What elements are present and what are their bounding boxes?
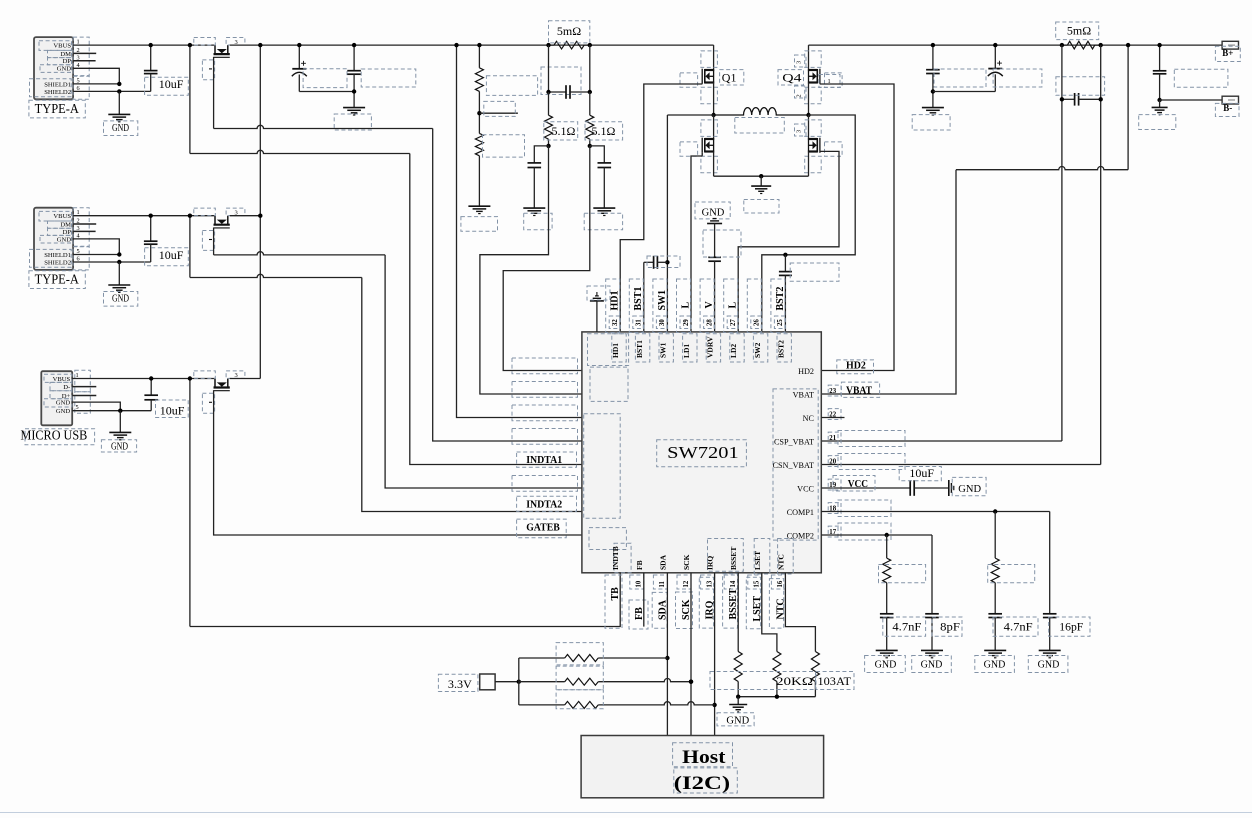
svg-text:SW2: SW2 — [753, 342, 762, 358]
svg-text:GND: GND — [112, 293, 129, 304]
ground C18 — [1039, 649, 1061, 651]
svg-text:5mΩ: 5mΩ — [557, 24, 581, 38]
wire Q3 gate to LD2 — [738, 151, 839, 332]
svg-text:31: 31 — [636, 319, 643, 326]
junction R3 bottom — [588, 144, 592, 148]
wire BSSET pin 14 down — [737, 573, 739, 652]
svg-text:SHIELD2: SHIELD2 — [44, 259, 71, 266]
wire VCC pin 19 — [821, 487, 910, 489]
wire J1 VBUS to rail — [73, 44, 215, 46]
wire divider middle + tap stub — [478, 91, 480, 133]
wire Q3 source down — [808, 152, 810, 177]
svg-text:5.1Ω: 5.1Ω — [552, 124, 576, 138]
svg-text:10uF: 10uF — [909, 466, 934, 480]
svg-text:NTC: NTC — [776, 554, 785, 570]
capacitor C18 16pF COMP1 — [1049, 512, 1051, 614]
wire J2 SHIELD2 to cap ground — [73, 261, 151, 263]
resistor R3 5.1ohm right — [589, 92, 591, 115]
wire J1 SHIELD1 — [73, 83, 119, 85]
svg-text:BST1: BST1 — [635, 340, 644, 358]
svg-text:20KΩ: 20KΩ — [776, 674, 813, 688]
junction C12 gnd node — [931, 89, 935, 93]
wire FB stub pin 10 — [643, 573, 645, 627]
svg-text:VBAT: VBAT — [846, 386, 872, 397]
svg-text:VBUS: VBUS — [53, 376, 71, 383]
svg-text:10uF: 10uF — [159, 77, 184, 91]
svg-text:4.7nF: 4.7nF — [892, 620, 921, 634]
junction trunk at rail — [258, 43, 262, 47]
svg-text:GND: GND — [726, 715, 749, 726]
junction trunk at Q6 out — [258, 214, 262, 218]
svg-text:4.7nF: 4.7nF — [1004, 620, 1033, 634]
svg-text:28: 28 — [706, 319, 713, 326]
wire rail after Q5 (VBUS bus) — [230, 44, 714, 46]
svg-text:11: 11 — [659, 580, 666, 587]
wire Q6 output to trunk — [230, 215, 260, 217]
svg-text:SCK: SCK — [682, 554, 691, 570]
capacitor C12 ceramic (batt) — [932, 45, 934, 70]
svg-text:GND: GND — [111, 441, 128, 452]
wire CSP kelvin down — [1061, 45, 1063, 441]
wire INDTA1 net: J1 VBUS down — [189, 45, 191, 153]
wire LD1 to Q2 gate — [691, 156, 702, 332]
svg-text:30: 30 — [659, 319, 666, 326]
svg-text:SW1: SW1 — [658, 342, 667, 358]
svg-text:NC: NC — [803, 414, 815, 423]
wire SCK pin 12 to host — [690, 573, 692, 736]
wire Q1 source to SW1 node — [713, 83, 715, 116]
svg-text:D-: D- — [63, 384, 70, 391]
wire CSN kelvin down — [1100, 45, 1102, 464]
ground C17 — [984, 649, 1006, 651]
ground C19 — [876, 649, 898, 651]
wire J2 DP stub — [73, 230, 96, 232]
J3 pin name boxes — [44, 374, 72, 382]
svg-text:TYPE-A: TYPE-A — [35, 102, 80, 117]
wire COMP2 pin 17 — [821, 534, 932, 536]
wire COMP1 pin 18 — [821, 511, 1049, 513]
svg-text:14: 14 — [730, 580, 737, 587]
svg-text:Host: Host — [682, 747, 726, 768]
capacitor C13 electrolytic (batt) — [994, 45, 996, 69]
svg-text:Q4: Q4 — [782, 71, 801, 85]
transistor Q2 low-side left — [713, 115, 715, 139]
wire trunk switched VBUS — [259, 45, 261, 378]
svg-text:FB: FB — [635, 560, 644, 570]
connector J3 MICRO USB — [41, 371, 72, 425]
connector J1 TYPE-A (top) — [34, 37, 73, 99]
svg-text:HD2: HD2 — [798, 367, 814, 376]
svg-text:SW1: SW1 — [657, 290, 668, 311]
ground VCC (sideways) — [948, 480, 950, 496]
wire J1 DM stub — [73, 52, 96, 54]
wire Q1 gate to HD1 — [620, 84, 702, 332]
svg-text:10uF: 10uF — [160, 403, 185, 417]
svg-text:3.3V: 3.3V — [448, 677, 472, 691]
resistor R1 5mOhm (USB current sense) — [554, 41, 584, 49]
ground C8 — [593, 207, 615, 209]
svg-text:CSP_VBAT: CSP_VBAT — [774, 437, 814, 446]
wire Q4 source to SW2 node — [808, 83, 810, 116]
transistor Q5 load switch (J1) — [214, 45, 216, 54]
svg-text:(I2C): (I2C) — [674, 773, 730, 794]
svg-text:SHIELD1: SHIELD1 — [44, 81, 71, 88]
wire sense right down — [589, 45, 591, 92]
wire power stage source rail — [714, 175, 809, 177]
junction C15 bottom / B- node — [1157, 98, 1161, 102]
svg-text:L: L — [680, 302, 691, 309]
svg-text:15: 15 — [754, 580, 761, 587]
wire CSN_VBAT to pin 20 — [821, 464, 1100, 466]
wire ACIN net rail to pin 3 — [457, 45, 582, 417]
junction BST1 cap tap — [665, 260, 669, 264]
junction J1 shield2 — [117, 89, 121, 93]
wire Q2 source down — [713, 152, 715, 177]
svg-text:GATEB: GATEB — [526, 523, 560, 534]
junction VBAT at rail — [1126, 43, 1130, 47]
wire J1 SHIELD2 to cap ground — [73, 90, 151, 92]
resistor R2 5.1ohm left — [548, 92, 550, 115]
svg-text:13: 13 — [706, 580, 713, 587]
svg-text:GND: GND — [921, 659, 943, 670]
svg-text:GND: GND — [1038, 659, 1060, 670]
block Host (I2C) — [581, 736, 824, 798]
svg-text:VCC: VCC — [848, 479, 868, 490]
svg-text:HD1: HD1 — [610, 291, 621, 311]
capacitor C4 electrolytic (rail) — [298, 45, 300, 69]
junction R1 left — [546, 43, 550, 47]
capacitor C15 (B+ terminal) — [1159, 45, 1161, 71]
resistor R9 IRQ pullup (hops SDA) — [519, 704, 565, 706]
wire INDTA2 to pin 7 — [362, 278, 582, 512]
svg-text:SDA: SDA — [658, 554, 667, 570]
junction C6 left — [546, 90, 550, 94]
svg-text:21: 21 — [829, 435, 836, 442]
svg-text:GND: GND — [112, 123, 129, 134]
wire GATEA1 horizontal (hop over trunk) — [214, 125, 433, 128]
capacitor C6 sense filter — [549, 91, 567, 93]
svg-text:5.1Ω: 5.1Ω — [592, 124, 616, 138]
svg-text:LD1: LD1 — [682, 344, 691, 358]
resistor R8 SCK pullup — [519, 681, 565, 683]
resistor R4 5mOhm (battery current sense) — [1067, 41, 1094, 49]
svg-text:BST2: BST2 — [776, 340, 785, 358]
pullup resistor boxes — [556, 643, 603, 665]
J1 pin name boxes — [39, 41, 72, 51]
svg-text:COMP2: COMP2 — [787, 531, 814, 540]
wire sense-right to pin 1 — [503, 146, 590, 371]
svg-text:LD2: LD2 — [729, 344, 738, 358]
wire INDTB bottom run — [190, 573, 620, 627]
svg-text:10: 10 — [636, 580, 643, 587]
wire rail Q4 to B+ — [809, 44, 1223, 46]
junction C6 right — [588, 90, 592, 94]
junction J1 shield1 — [117, 82, 121, 86]
right side row boxes — [838, 431, 905, 447]
svg-text:VCC: VCC — [797, 484, 814, 493]
svg-text:DM: DM — [60, 51, 71, 58]
ground set resistors — [737, 697, 739, 705]
svg-text:CSN_VBAT: CSN_VBAT — [773, 461, 814, 470]
svg-text:INDTB: INDTB — [611, 546, 620, 570]
capacitor C17 4.7nF COMP1 — [988, 613, 1002, 615]
svg-text:20: 20 — [829, 458, 836, 465]
junction COMP1 RC — [993, 509, 997, 513]
terminal B- — [1222, 96, 1238, 104]
transistor Q1 high-side left — [705, 69, 714, 71]
wire rail out of Q4 drain — [808, 45, 810, 70]
junction source rail center — [759, 174, 763, 178]
junction C2 top — [149, 214, 153, 218]
wire VBUS-J3 down (INDTB net) — [189, 379, 191, 627]
svg-text:SW7201: SW7201 — [667, 443, 739, 462]
svg-text:2: 2 — [796, 94, 803, 97]
wire SW2 net to pin 26 — [762, 115, 855, 332]
svg-text:TYPE-A: TYPE-A — [35, 273, 80, 288]
ground J3 GND symbol — [109, 431, 131, 433]
wire J1 DP stub — [73, 60, 96, 62]
svg-text:GND: GND — [958, 484, 981, 495]
IC inner dashed boxes — [588, 334, 629, 366]
junction BST2 cap tap — [783, 253, 787, 257]
svg-text:27: 27 — [730, 319, 737, 326]
wire J3 GND5 to cap bottom — [72, 410, 151, 412]
J2 pin name boxes — [39, 211, 72, 221]
wire J2 GND pin to ground node — [73, 239, 119, 255]
svg-text:B-: B- — [1223, 103, 1232, 113]
resistor R10 BSSET — [734, 652, 742, 682]
capacitor C10 BST1 bootstrap — [644, 261, 654, 263]
capacitor C3 10uF (J3 VBUS) — [150, 379, 152, 396]
svg-text:10uF: 10uF — [159, 248, 184, 262]
wire J3 gnd drop — [119, 411, 121, 432]
wire VBUS-J2 down to INDTA2 — [189, 216, 191, 278]
capacitor C9 BST2 bootstrap — [784, 255, 786, 272]
ground IC exposed pad (top-left, inverted) — [590, 300, 604, 302]
junction SW1 node — [711, 113, 715, 117]
wire LSET pin 15 down — [762, 573, 777, 652]
svg-text:BST1: BST1 — [633, 287, 644, 311]
svg-text:25: 25 — [777, 319, 784, 326]
svg-text:TB: TB — [610, 587, 621, 601]
svg-text:DP: DP — [63, 58, 72, 65]
capacitor C2 10uF (J2 VBUS) — [150, 216, 152, 242]
wire J3 D- stub — [72, 386, 96, 388]
wire J1 gnd drop — [118, 91, 120, 114]
svg-text:LSET: LSET — [753, 551, 762, 570]
wire J2 VBUS to PMOS Q6 — [73, 215, 215, 217]
wire GATEA1 net: Q5 gate down — [213, 57, 215, 129]
svg-text:VBUS: VBUS — [53, 43, 71, 50]
wire INDTA2 horizontal (hop over trunk) — [190, 274, 362, 277]
svg-text:GND: GND — [702, 207, 725, 218]
svg-text:103AT: 103AT — [818, 674, 852, 688]
svg-text:BSSET: BSSET — [729, 547, 738, 570]
svg-text:Q1: Q1 — [722, 71, 737, 85]
svg-text:IRQ: IRQ — [706, 556, 715, 570]
wire GATEA2 horizontal (hop over trunk) — [214, 252, 386, 255]
wire SW1 net to pin 30 — [667, 114, 713, 116]
capacitor C20 8pF COMP2 — [931, 535, 933, 614]
svg-text:29: 29 — [683, 319, 690, 326]
junction at J3 rail — [188, 376, 192, 380]
wire SDA pin 11 to host — [666, 573, 668, 736]
capacitor C8 right sense to gnd — [590, 146, 605, 163]
capacitor C5 ceramic (rail) — [353, 45, 355, 71]
ground J2 GND symbol — [108, 284, 130, 286]
wire J1 GND pin to ground node — [73, 68, 119, 84]
svg-text:DP: DP — [63, 229, 72, 236]
wire CSP_VBAT to pin 21 — [821, 440, 1062, 442]
wire J2 gnd drop — [118, 262, 120, 285]
svg-text:COMP1: COMP1 — [787, 508, 814, 517]
svg-text:DM: DM — [60, 221, 71, 228]
svg-text:V: V — [704, 301, 715, 309]
wire INDTA1 to pin 5 — [410, 154, 582, 465]
wire IRQ pin 13 to host — [714, 573, 716, 736]
svg-text:26: 26 — [754, 319, 761, 326]
junction J2 shield2 — [117, 260, 121, 264]
svg-text:12: 12 — [683, 580, 690, 587]
wire sense-left to pin 2 — [480, 146, 582, 394]
label boxes below IC — [605, 575, 622, 628]
capacitor C19 4.7nF COMP2 — [880, 613, 894, 615]
svg-text:GND: GND — [984, 659, 1006, 670]
resistor R6 COMP2 — [886, 535, 888, 558]
wire HD2 to Q4 gate — [820, 84, 894, 371]
junction R2 bottom — [546, 144, 550, 148]
junction COMP2 RC — [885, 533, 889, 537]
IC U1 SW7201 — [582, 332, 821, 573]
junction at J2 rail — [188, 214, 192, 218]
junction J3 gnd — [118, 409, 122, 413]
svg-text:SHIELD2: SHIELD2 — [44, 89, 71, 96]
junction SCK pullup — [689, 680, 693, 684]
transistor Q7 load switch (J3) — [214, 379, 216, 388]
junction J2 shield1 — [117, 252, 121, 256]
resistor R7 SDA pullup — [519, 657, 565, 659]
transistor Q4 high-side right — [808, 69, 817, 71]
svg-text:MICRO USB: MICRO USB — [21, 428, 88, 443]
wire VBAT net pin 23 — [821, 170, 956, 394]
svg-text:SHIELD1: SHIELD1 — [44, 252, 71, 259]
svg-text:16pF: 16pF — [1059, 620, 1083, 634]
svg-text:32: 32 — [612, 319, 619, 326]
junction C4/C5 gnd — [352, 89, 356, 93]
wire GATEA1 to pin 4 — [433, 129, 582, 442]
svg-text:5mΩ: 5mΩ — [1067, 24, 1091, 38]
wire J3 GND4 to ground node — [72, 402, 120, 411]
svg-text:VDRV: VDRV — [706, 336, 715, 358]
junction IRQ pullup — [712, 703, 716, 707]
empty label boxes left of IC pins — [512, 358, 578, 374]
resistor divider upper — [478, 45, 480, 68]
ground J1 GND symbol — [108, 113, 130, 115]
svg-text:BST2: BST2 — [775, 287, 786, 311]
capacitor C11 VDRV decoupling — [714, 224, 716, 258]
svg-text:B+: B+ — [1222, 48, 1233, 58]
svg-text:INDTA1: INDTA1 — [526, 455, 562, 466]
wire GATEA2 to pin 6 — [385, 255, 582, 488]
wire NTC pin 16 down — [785, 573, 815, 652]
terminal B+ — [1222, 44, 1238, 46]
junction INDTA1 at rail — [188, 43, 192, 47]
svg-text:GND: GND — [56, 408, 71, 415]
junction ACIN at rail — [454, 43, 458, 47]
wire B- terminal — [1160, 99, 1223, 101]
ground power stage — [760, 176, 762, 186]
junction divider at rail — [477, 43, 481, 47]
wire 3.3V to pullups — [495, 681, 519, 683]
resistor R12 NTC 103AT — [811, 652, 819, 682]
wire set resistor common — [737, 696, 815, 698]
transistor Q6 load switch (J2) — [214, 216, 216, 225]
junction C3 top — [149, 376, 153, 380]
ground C20 — [921, 649, 943, 651]
ground C4/C5 — [343, 107, 365, 109]
ground C12/C13 — [922, 107, 944, 109]
transistor Q3 low-side right — [808, 115, 810, 139]
svg-text:GND: GND — [875, 659, 897, 670]
wire sense left down — [548, 45, 550, 92]
svg-text:3: 3 — [796, 130, 803, 133]
resistor R5 COMP1 — [994, 512, 996, 559]
svg-text:16: 16 — [777, 580, 784, 587]
svg-text:INDTA2: INDTA2 — [526, 500, 562, 511]
wire rail into Q1 drain — [713, 45, 715, 70]
wire J3 VBUS to PMOS Q7 — [72, 378, 215, 380]
svg-text:HD1: HD1 — [611, 343, 620, 358]
ground C15 — [1159, 100, 1161, 107]
wire J2 SHIELD1 — [73, 254, 119, 256]
junction SDA pullup — [665, 656, 669, 660]
wire INDTA1 horizontal (hop over trunk) — [190, 150, 410, 153]
ground C7 — [523, 207, 545, 209]
wire GATEB net: Q7 gate down to pin 8 — [214, 390, 582, 535]
wire J2 DM stub — [73, 223, 96, 225]
svg-text:VBAT: VBAT — [793, 390, 814, 399]
decor bottom rule — [0, 812, 1252, 814]
capacitor C14 sense filter (batt) — [1062, 98, 1075, 100]
ground divider — [468, 205, 490, 207]
resistor divider lower — [475, 133, 483, 155]
wire GATEA2 net: Q6 gate down — [213, 228, 215, 255]
svg-text:VBUS: VBUS — [53, 213, 71, 220]
capacitor C16 VCC 10uF — [909, 480, 911, 496]
wire NC pin 22 stub — [821, 417, 844, 419]
svg-text:3: 3 — [796, 61, 803, 64]
svg-text:8pF: 8pF — [940, 620, 960, 634]
junction SW2 node — [806, 113, 810, 117]
wire J3 D+ stub — [72, 395, 96, 397]
svg-text:23: 23 — [829, 388, 836, 395]
svg-text:GND: GND — [57, 66, 72, 73]
connector J2 TYPE-A (middle) — [34, 208, 73, 270]
svg-text:GND: GND — [57, 236, 72, 243]
svg-text:GND: GND — [56, 400, 71, 407]
svg-text:HD2: HD2 — [846, 361, 866, 372]
capacitor C1 10uF (J1 VBUS) — [150, 45, 152, 71]
junction C1 top on rail — [149, 43, 153, 47]
junction R1 right — [588, 43, 592, 47]
wire Q7 output to trunk — [230, 378, 260, 380]
capacitor C7 left sense to gnd — [534, 146, 548, 163]
svg-text:L: L — [728, 302, 739, 309]
resistor R11 LSET 20K — [773, 652, 781, 682]
inductor L1 — [714, 108, 809, 115]
